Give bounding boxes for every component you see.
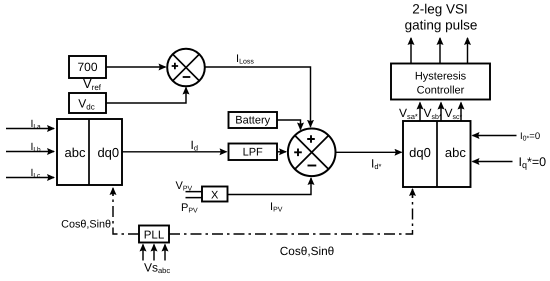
svg-text:ILa: ILa bbox=[31, 118, 42, 131]
svg-text:2-leg VSI: 2-leg VSI bbox=[412, 2, 468, 17]
wire 700 to summer S1 bbox=[106, 66, 166, 68]
svg-text:ILc: ILc bbox=[31, 167, 42, 180]
wire Vdc to summer S1 bottom bbox=[106, 88, 186, 104]
wire Vsb* bbox=[440, 103, 442, 122]
svg-text:Iq*=0: Iq*=0 bbox=[519, 155, 547, 170]
wire Battery to S2 top-left bbox=[277, 120, 301, 130]
wire gating pulse 1 bbox=[410, 38, 412, 64]
svg-text:X: X bbox=[211, 190, 219, 202]
svg-text:ILoss: ILoss bbox=[236, 53, 254, 66]
svg-text:IPV: IPV bbox=[270, 201, 283, 214]
svg-text:Cosθ,Sinθ: Cosθ,Sinθ bbox=[280, 244, 334, 258]
wires VPV PPV into multiplier bbox=[186, 192, 203, 198]
svg-text:700: 700 bbox=[77, 60, 97, 74]
wire ILoss: S1 to summer S2 top bbox=[205, 67, 311, 127]
svg-text:Vsa*: Vsa* bbox=[399, 106, 418, 121]
block B1 abc-dq0 bbox=[57, 119, 122, 185]
wire LPF to S2 left bbox=[277, 151, 286, 153]
svg-text:dq0: dq0 bbox=[409, 145, 431, 160]
svg-text:PPV: PPV bbox=[181, 202, 198, 215]
svg-text:I0*=0: I0*=0 bbox=[520, 131, 540, 143]
wire Id: B1 to LPF bbox=[123, 151, 227, 153]
svg-text:abc: abc bbox=[65, 145, 86, 160]
block Vdc bbox=[69, 93, 106, 113]
block B2 dq0-abc bbox=[403, 121, 471, 187]
svg-text:ILb: ILb bbox=[31, 141, 42, 154]
svg-text:Hysteresis: Hysteresis bbox=[415, 71, 467, 83]
wire input ILc bbox=[6, 177, 54, 179]
block 700 (Vref reference) bbox=[69, 56, 106, 78]
wire Vsc* bbox=[460, 103, 462, 122]
svg-text:LPF: LPF bbox=[243, 147, 263, 159]
wire IPV: X to S2 bottom bbox=[228, 178, 312, 195]
wire dash-dot PLL to B2 (CosSin right) bbox=[169, 193, 413, 234]
svg-text:Battery: Battery bbox=[235, 115, 270, 127]
block LPF bbox=[229, 144, 278, 161]
wire Vsa* B2 to hysteresis bbox=[419, 103, 421, 122]
svg-text:Vsc*: Vsc* bbox=[445, 106, 463, 121]
wire I0*=0 input bbox=[473, 135, 517, 137]
svg-text:VPV: VPV bbox=[176, 180, 193, 193]
block Hysteresis Controller bbox=[391, 64, 490, 100]
svg-text:Id*: Id* bbox=[371, 157, 382, 172]
wire input ILb bbox=[6, 151, 54, 153]
svg-text:Id: Id bbox=[191, 138, 199, 153]
svg-text:abc: abc bbox=[445, 145, 466, 160]
svg-text:Controller: Controller bbox=[417, 85, 465, 97]
svg-text:gating pulse: gating pulse bbox=[405, 18, 478, 33]
svg-text:dq0: dq0 bbox=[97, 145, 119, 160]
block multiplier X bbox=[202, 187, 228, 202]
wire gating pulse 3 bbox=[467, 38, 469, 64]
wire input ILa bbox=[6, 128, 54, 130]
summing junction S2 bbox=[288, 129, 336, 177]
block PLL bbox=[139, 226, 169, 243]
wire Id*: S2 to B2 bbox=[336, 151, 402, 153]
wire Iq*=0 input bbox=[473, 161, 513, 163]
wire dash-dot PLL to B1 (CosSin left) bbox=[113, 192, 139, 234]
svg-text:Vsabc: Vsabc bbox=[144, 261, 170, 276]
summing junction S1 bbox=[167, 49, 205, 87]
wire VSabc inputs to PLL bbox=[142, 245, 144, 261]
svg-text:Cosθ,Sinθ: Cosθ,Sinθ bbox=[61, 219, 111, 231]
wire gating pulse 2 bbox=[439, 38, 441, 64]
svg-text:PLL: PLL bbox=[144, 230, 165, 242]
svg-text:Vsb*: Vsb* bbox=[424, 106, 442, 121]
block Battery bbox=[229, 112, 278, 128]
